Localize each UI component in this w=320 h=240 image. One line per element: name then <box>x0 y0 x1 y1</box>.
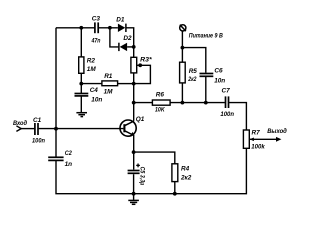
svg-text:1M: 1M <box>104 88 114 95</box>
svg-text:R3*: R3* <box>140 57 152 64</box>
svg-text:Выход: Выход <box>267 127 287 135</box>
svg-text:2к2: 2к2 <box>188 76 197 83</box>
svg-text:1n: 1n <box>65 161 73 168</box>
svg-text:R7: R7 <box>252 130 261 137</box>
svg-text:Питание 9 В: Питание 9 В <box>189 33 223 40</box>
svg-text:C2: C2 <box>65 150 72 157</box>
svg-text:2к2: 2к2 <box>180 174 192 181</box>
svg-text:R6: R6 <box>156 92 165 99</box>
svg-text:100n: 100n <box>32 138 45 145</box>
svg-text:R1: R1 <box>104 73 113 80</box>
svg-text:1M: 1M <box>87 66 97 73</box>
svg-text:47n: 47n <box>91 38 101 45</box>
svg-text:100k: 100k <box>251 144 265 151</box>
svg-text:C5 3,3µ: C5 3,3µ <box>138 167 145 186</box>
svg-text:Вход: Вход <box>13 119 27 127</box>
svg-text:10K: 10K <box>155 107 165 114</box>
svg-text:C3: C3 <box>92 16 101 23</box>
svg-text:C6: C6 <box>214 68 223 75</box>
svg-text:R5: R5 <box>189 68 198 75</box>
svg-text:10n: 10n <box>214 77 225 84</box>
svg-text:C1: C1 <box>33 117 42 124</box>
svg-text:D2: D2 <box>123 35 132 42</box>
svg-text:R2: R2 <box>87 57 96 64</box>
svg-text:Q1: Q1 <box>136 116 145 123</box>
svg-text:100n: 100n <box>220 111 234 118</box>
svg-text:C4: C4 <box>90 87 99 94</box>
svg-text:C7: C7 <box>222 88 231 95</box>
svg-text:D1: D1 <box>116 17 125 24</box>
svg-text:10n: 10n <box>91 97 102 104</box>
svg-text:R4: R4 <box>181 166 190 173</box>
